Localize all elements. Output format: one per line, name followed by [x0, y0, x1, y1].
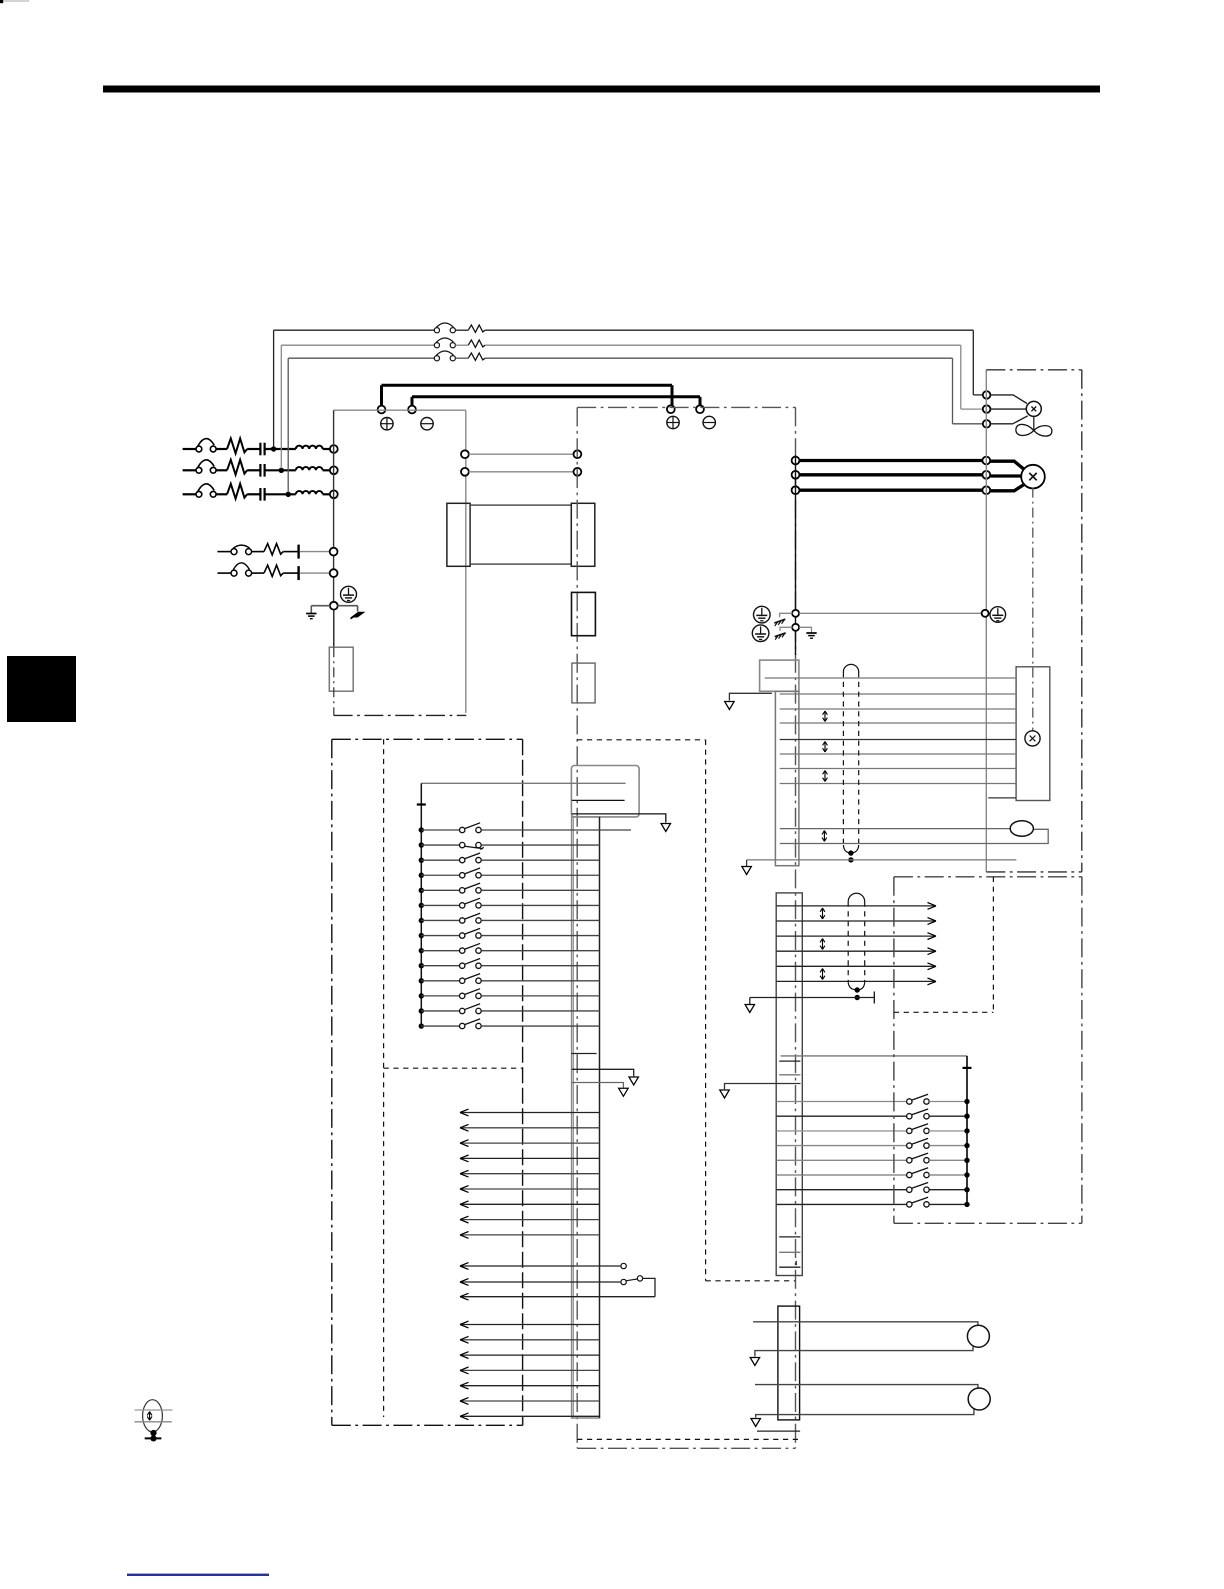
wire input row 3 to switch	[421, 859, 459, 861]
wire right input row 5 to bus	[929, 1159, 967, 1161]
shield node PG lower	[855, 995, 860, 1000]
control filter capacitor bar L1C	[297, 545, 299, 559]
servopack box left edge (dash-dot)	[576, 407, 578, 1448]
surge resistor 1	[468, 325, 485, 332]
arrow PG output 4	[928, 948, 937, 955]
terminal converter input S	[330, 466, 338, 474]
CN1 region dashed right	[705, 740, 707, 1281]
wire	[455, 344, 468, 346]
servo motor M	[1021, 465, 1045, 489]
switch input 5	[460, 888, 465, 893]
terminal converter input R	[330, 445, 338, 453]
noise filter capacitor T	[259, 488, 261, 501]
wire input row 11 to CN1	[481, 980, 599, 982]
wire fan motor to blades	[1033, 416, 1035, 430]
wire input row 11 to switch	[421, 980, 459, 982]
wire right input row 2 to bus	[929, 1115, 967, 1117]
line filter inductor S	[296, 467, 323, 470]
cable shield left (dashed)	[842, 672, 844, 845]
wire	[252, 551, 264, 553]
cable shield right PG (dashed)	[864, 902, 866, 983]
host in/out divider (dashed)	[384, 1067, 523, 1069]
wire +24V rail (right)	[781, 1055, 967, 1057]
wire S to junction	[265, 469, 296, 471]
contact circle B-common	[637, 1276, 642, 1281]
converter unit box left edge	[333, 410, 335, 609]
wire PG output 4	[777, 950, 936, 952]
switch blade B	[626, 1279, 637, 1281]
wire CN1R FG	[725, 1084, 801, 1090]
terminal link lower left	[461, 468, 469, 476]
chassis hatch 2	[775, 633, 786, 637]
wire	[283, 551, 297, 553]
shield node lower	[848, 857, 853, 862]
terminal converter input T	[330, 490, 338, 498]
twisted pair arrow (enc 7-8)	[824, 771, 826, 782]
wire drop to fan terminal 2	[960, 345, 962, 409]
arrow PG output 1	[928, 903, 937, 910]
node input row 9	[419, 948, 424, 953]
frame ground triangle (CN2 shell)	[725, 702, 735, 710]
node right input row 5	[964, 1158, 969, 1163]
wire motor phase V (heavy)	[799, 473, 983, 476]
wire	[216, 469, 227, 471]
wire hatch2 to terminal	[780, 627, 793, 631]
node right input row 6	[964, 1172, 969, 1177]
connector CN1 shell top	[571, 766, 639, 817]
switch input 4	[460, 873, 465, 878]
connector CN1 right edge	[599, 817, 601, 1418]
polarity mark + (servopack)	[667, 416, 679, 428]
wire battery1 +	[753, 1322, 978, 1325]
node input row 4	[419, 873, 424, 878]
arrow output C2	[460, 1336, 469, 1343]
circuit breaker MCCB pole S	[196, 467, 202, 473]
legend updown arrow	[149, 1412, 151, 1421]
terminal motor V	[982, 471, 990, 479]
switch right input 5	[907, 1158, 912, 1163]
fuse/switch contact pair 2	[434, 343, 439, 348]
noise filter resistor S	[227, 460, 247, 475]
wire battery2 +	[755, 1385, 978, 1388]
node input row 14	[419, 1023, 424, 1028]
protective earth circle symbol	[341, 586, 357, 602]
wire to converter terminal R	[323, 448, 330, 450]
contact circle B2	[621, 1279, 626, 1284]
pin tick r3	[779, 1266, 800, 1268]
frame ground triangle (CN1 FG upper)	[629, 1077, 639, 1085]
wire fan-circuit run 1	[274, 329, 434, 331]
power bar tick (right)	[963, 1067, 972, 1069]
wire right input row 1 to bus	[929, 1101, 967, 1103]
host2 box top (dash-dot)	[894, 876, 1082, 878]
noise filter resistor R	[227, 439, 247, 454]
fan blades symbol	[1016, 424, 1034, 435]
power bar tick (+24V)	[417, 803, 426, 805]
wire terminal2 branch	[799, 627, 811, 632]
servopack internal unit box 2	[572, 663, 595, 703]
backup battery 1	[967, 1325, 989, 1347]
switch input 13	[460, 1008, 465, 1013]
fan motor circle	[1026, 401, 1041, 416]
shield node upper	[848, 850, 853, 855]
terminal servopack motor U	[792, 457, 800, 465]
wire shield PG tail	[857, 997, 874, 999]
switch input 7	[460, 918, 465, 923]
backup battery 2	[968, 1388, 990, 1410]
wire input row 14 to CN1	[481, 1025, 599, 1027]
wire motor phase U (heavy)	[799, 459, 983, 462]
wire input row 3 to CN1	[481, 859, 599, 861]
connector battery body	[778, 1306, 800, 1420]
earth circle symbol (motor)	[990, 607, 1006, 623]
wire PG shield to FG	[750, 997, 857, 999]
node input row 2	[419, 842, 424, 847]
host controller box left (dash-dot)	[331, 739, 333, 1425]
wire right input row 8 to bus	[929, 1203, 967, 1205]
wire CN1 shell to FG	[572, 814, 666, 823]
wire T-phase supply lead	[183, 493, 197, 495]
wire	[455, 329, 468, 331]
switch input 12	[460, 993, 465, 998]
arrow output A8	[460, 1216, 469, 1223]
frame ground triangle (CN1R FG)	[720, 1090, 730, 1098]
node right input row 1	[964, 1099, 969, 1104]
wire PG output 1	[777, 905, 936, 907]
legend wire upper	[135, 1409, 173, 1411]
wire output row A2	[460, 1127, 600, 1129]
pin tick r0b	[779, 1074, 800, 1076]
junction node S tap	[279, 468, 284, 473]
wire fan terminal 2 to fan motor	[990, 408, 1026, 410]
arrow output A7	[460, 1201, 469, 1208]
servomotor box top edge (dash-dot)	[986, 369, 1082, 371]
wire last row to host bottom	[522, 1416, 524, 1425]
pin tick CN1 spare	[571, 1053, 596, 1055]
terminal L2C	[330, 569, 338, 577]
polarity mark - (servopack)	[703, 416, 715, 428]
wire R to junction	[265, 448, 296, 450]
legend node 1	[150, 1430, 156, 1436]
switch input 14	[460, 1023, 465, 1028]
wire input row 10 to CN1	[481, 965, 599, 967]
wire right input row 7 to bus	[929, 1189, 967, 1191]
wire T tap riser	[287, 358, 289, 492]
host2 box left (dash-dot)	[893, 877, 895, 1224]
switch right input 7	[907, 1187, 912, 1192]
junction node R tap	[271, 446, 276, 451]
wire encoder signal 1	[765, 677, 1016, 679]
terminal servopack ground 1	[792, 610, 799, 617]
wire motor shaft to encoder (dash-dot)	[1032, 488, 1034, 731]
chassis ground arrow symbol	[352, 612, 364, 617]
terminal converter P	[378, 406, 386, 414]
wire ground left branch	[311, 605, 330, 607]
wire input row 5 to switch	[421, 889, 459, 891]
wire encoder signal 5	[780, 739, 1016, 741]
wire to terminal L1C	[300, 551, 330, 553]
node input row 10	[419, 963, 424, 968]
arrow output C5	[460, 1382, 469, 1389]
wire input row 9 to switch	[421, 950, 459, 952]
host controller box top (dash-dot)	[332, 738, 523, 740]
wire motor phase W (heavy)	[799, 489, 983, 492]
twisted pair arrow (PG 5-6)	[822, 969, 824, 980]
frame ground triangle (CN1 FG lower)	[619, 1088, 629, 1096]
node input row 12	[419, 993, 424, 998]
header rule	[103, 86, 1100, 93]
node right input row 8	[964, 1202, 969, 1207]
wire output row A3	[460, 1142, 600, 1144]
servomotor box left edge	[985, 370, 987, 872]
wire B-common to row B3	[643, 1278, 655, 1296]
host controller box bottom (dash-dot)	[332, 1424, 523, 1426]
switch input 8	[460, 933, 465, 938]
DC reactor right flange	[571, 503, 595, 566]
arrow output C3	[460, 1352, 469, 1359]
servopack box bottom edge (dash-dot)	[577, 1447, 795, 1449]
converter unit box right edge	[465, 410, 467, 713]
wire ground to motor	[799, 612, 981, 614]
node input row 13	[419, 1008, 424, 1013]
arrow output B3	[460, 1293, 469, 1300]
wire servopack edge solid segment	[795, 455, 797, 655]
wire right input row 6 to bus	[929, 1174, 967, 1176]
wire PG output 2	[777, 920, 936, 922]
twisted pair arrow (enc 3-4)	[824, 711, 826, 722]
pin tick r3b	[795, 1261, 797, 1265]
terminal motor U	[982, 457, 990, 465]
wire encoder stub	[988, 797, 1016, 799]
wire thermostat 2	[780, 829, 1048, 843]
wire PG output 6	[777, 980, 936, 982]
fuse/switch contact pair 1	[434, 328, 439, 333]
switch input 3	[460, 857, 465, 862]
wire CN1 FG upper	[572, 1069, 634, 1076]
control breaker contact L1C	[231, 549, 237, 555]
terminal link upper left	[461, 450, 469, 458]
node input row 11	[419, 978, 424, 983]
noise filter capacitor R	[259, 443, 261, 456]
wire right input row 8	[777, 1203, 907, 1205]
wire input row 13 to switch	[421, 1010, 459, 1012]
CN1 region dashed top	[577, 739, 705, 741]
CN1 region dashed bottom	[577, 1438, 798, 1440]
twisted pair arrow (PG 3-4)	[822, 939, 824, 950]
node input row 5	[419, 888, 424, 893]
contact circle B1	[621, 1263, 626, 1268]
encoder resolver circle	[1025, 731, 1040, 746]
motor thermostat oval	[1010, 821, 1033, 836]
wire input row 12 to CN1	[481, 995, 599, 997]
twisted pair arrow (enc 5-6)	[824, 742, 826, 753]
arrow output A2	[460, 1124, 469, 1131]
connector CN2 shell top	[760, 660, 799, 691]
servopack internal unit box 1	[572, 592, 596, 635]
wire output row A4	[460, 1157, 600, 1159]
wire right input row 1	[777, 1101, 907, 1103]
wire 24V pin line	[572, 799, 625, 801]
arrow output C4	[460, 1367, 469, 1374]
node input row 7	[419, 918, 424, 923]
wire encoder signal 6	[780, 753, 1016, 755]
arrow output B2	[460, 1279, 469, 1286]
arrow output A5	[460, 1170, 469, 1177]
terminal servopack P	[667, 405, 675, 413]
wire right input row 2	[777, 1115, 907, 1117]
wire encoder signal 4	[780, 722, 1016, 724]
wire output row A5	[460, 1173, 600, 1175]
wire input row 7 to CN1	[481, 919, 599, 921]
wire PG output 3	[777, 935, 936, 937]
control breaker contact L2C	[231, 570, 237, 576]
converter internal unit (small box)	[329, 647, 353, 691]
wire fan terminal 1 to fan motor	[990, 395, 1027, 404]
circuit breaker MCCB pole T	[196, 491, 202, 497]
wire output row C7	[460, 1415, 600, 1417]
wire dash-dot inside small box	[333, 647, 335, 715]
wire input row 6 to CN1	[481, 904, 599, 906]
wire +24VIN rail	[421, 782, 625, 784]
control supply lead L1C	[217, 551, 231, 553]
wire encoder signal 8	[780, 783, 1016, 785]
node right input row 2	[964, 1114, 969, 1119]
node input row 1	[419, 827, 424, 832]
wire right input row 3	[777, 1130, 907, 1132]
wire output row B2	[460, 1281, 621, 1283]
terminal motor W	[982, 486, 990, 494]
wire input row 10 to switch	[421, 965, 459, 967]
terminal link lower right	[574, 468, 582, 476]
wire CN1 FG lower	[572, 1083, 624, 1088]
legend base line	[145, 1437, 162, 1439]
fuse/switch contact pair 3	[434, 356, 439, 361]
terminal L1C	[330, 548, 338, 556]
wire	[455, 357, 468, 359]
switch input 1	[460, 827, 465, 832]
wire drop to fan terminal 1	[972, 330, 974, 395]
servopack box top edge (dash-dot)	[577, 406, 795, 408]
wire input row 9 to CN1	[481, 950, 599, 952]
cable shield bottom gather	[843, 845, 851, 853]
earth circle symbol (servopack 2)	[752, 625, 769, 642]
host input group box (dashed)	[383, 739, 385, 1417]
chapter tab	[7, 656, 76, 722]
ground symbol at servopack	[806, 632, 816, 634]
servomotor box right edge (dash-dot)	[1081, 370, 1083, 872]
shield tail end bar	[873, 992, 875, 1004]
wire	[247, 448, 260, 450]
DC reactor body	[470, 505, 571, 564]
frame ground triangle (battery2)	[751, 1419, 761, 1427]
wire input common bus	[420, 830, 422, 1026]
footer rule	[127, 1574, 269, 1576]
wire input row 2 to CN1	[481, 844, 599, 846]
CN1 region dashed jog	[706, 1280, 796, 1282]
wire right input row 7	[777, 1189, 907, 1191]
host2 PG group dashed bottom	[894, 1011, 994, 1013]
wire	[216, 493, 227, 495]
wire input row 4 to switch	[421, 874, 459, 876]
wire long run to motor fan 3	[485, 357, 952, 359]
wire to converter terminal T	[323, 493, 330, 495]
arrow output A3	[460, 1140, 469, 1147]
wire output row A8	[460, 1219, 600, 1221]
wire output row C2	[460, 1339, 600, 1341]
arrow output C6	[460, 1398, 469, 1405]
frame ground triangle (PG shield)	[745, 1005, 755, 1013]
wire encoder signal 7	[780, 768, 1016, 770]
frame ground triangle (CN1 shell)	[661, 824, 671, 832]
servomotor box bottom edge (dash-dot)	[986, 871, 1082, 873]
terminal converter ground	[330, 602, 338, 610]
arrow output A1	[460, 1109, 469, 1116]
wire output row B1	[460, 1265, 621, 1267]
surge resistor 3	[468, 353, 485, 360]
arrow PG output 3	[928, 933, 937, 940]
control supply lead L2C	[217, 572, 231, 574]
host2 box right (dash-dot)	[1081, 877, 1083, 1224]
host controller box right (long dash)	[522, 739, 524, 1425]
wire battery stub	[757, 1430, 800, 1432]
pin tick r2	[779, 1251, 800, 1253]
wire input row 14 to switch	[421, 1025, 459, 1027]
switch right input 4	[907, 1143, 912, 1148]
wire to terminal L2C	[300, 572, 330, 574]
wire input row 7 to switch	[421, 919, 459, 921]
converter unit box bottom edge (dash-dot)	[334, 714, 467, 716]
connector CN1 body	[572, 817, 600, 1418]
wire R-phase supply lead	[183, 448, 197, 450]
wire CN2 shell to FG	[729, 693, 772, 700]
servopack box right edge (dash-dot)	[795, 407, 797, 1448]
DC reactor left flange	[447, 503, 470, 566]
surge resistor 2	[468, 340, 485, 347]
node input row 6	[419, 903, 424, 908]
wire U into motor (heavy)	[990, 461, 1024, 469]
wire thermostat 1	[780, 828, 1010, 830]
wire fan terminal 3 to fan motor	[990, 416, 1027, 424]
wire output row C5	[460, 1385, 600, 1387]
wire output row A7	[460, 1203, 600, 1205]
pin tick r0a	[779, 1060, 800, 1062]
noise filter resistor T	[227, 484, 247, 499]
switch input 10	[460, 963, 465, 968]
control surge resistor L2C	[264, 565, 283, 576]
arrow output A9	[460, 1232, 469, 1239]
wire output row A6	[460, 1188, 600, 1190]
arrow output B1	[460, 1263, 469, 1270]
wire right input row 6	[777, 1174, 907, 1176]
wire output row C1	[460, 1324, 600, 1326]
converter unit box top edge	[334, 409, 466, 411]
wire right input row 5	[777, 1159, 907, 1161]
host2 PG group dashed right	[992, 877, 994, 1013]
wire output row B3	[460, 1296, 655, 1298]
host2 box bottom (dash-dot)	[894, 1222, 1082, 1224]
node input row 8	[419, 933, 424, 938]
cable shield left PG (dashed)	[847, 902, 849, 983]
shield node PG upper	[855, 987, 860, 992]
terminal servopack N	[696, 405, 704, 413]
wire DC bus P link	[382, 384, 673, 387]
node right input row 4	[964, 1143, 969, 1148]
wire input bus (right)	[966, 1102, 968, 1205]
wire input row 6 to switch	[421, 904, 459, 906]
wire S-phase supply lead	[183, 469, 197, 471]
wire DC bus N link	[412, 395, 700, 398]
wire drop to fan terminal 3	[952, 358, 954, 424]
